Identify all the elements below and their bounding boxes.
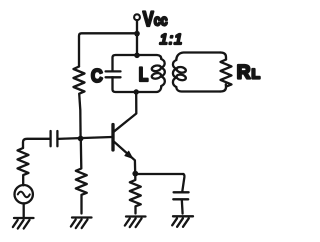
node at tank top — [134, 53, 140, 59]
svg-text:Vcc: Vcc — [143, 7, 168, 30]
bypass capacitor CE lead top — [182, 174, 184, 192]
wire secondary bottom rail — [176, 87, 220, 92]
svg-text:L: L — [139, 64, 149, 86]
ground (source) — [13, 218, 34, 229]
AC source — [15, 185, 33, 203]
wire top rail to R1 — [79, 33, 137, 66]
wire RL right side top — [221, 53, 227, 60]
wire emitter rail — [135, 173, 183, 175]
transistor Q1 base bar — [111, 125, 114, 151]
inductor L loop 2 — [151, 72, 161, 79]
transformer secondary loop 2 — [176, 74, 186, 81]
resistor RL — [221, 60, 232, 87]
transistor Q1 emitter lead — [114, 141, 136, 173]
node at tank bottom — [134, 89, 139, 94]
svg-text:R: R — [237, 63, 251, 84]
bypass capacitor CE lead bottom — [181, 200, 184, 214]
node at Vcc/R1 tap — [134, 31, 140, 37]
ground (R2) — [71, 218, 92, 229]
wire tank top rail — [113, 55, 162, 71]
wire RL right side bottom — [221, 84, 227, 91]
node at emitter — [132, 171, 138, 177]
wire AC source to ground — [23, 203, 25, 216]
resistor R2 — [76, 139, 87, 214]
wire secondary top rail — [176, 53, 220, 61]
bypass capacitor CE plates — [173, 192, 188, 199]
svg-text:C: C — [91, 65, 103, 86]
wire base — [58, 137, 112, 139]
resistor RE — [130, 174, 141, 214]
ground (CE) — [172, 216, 193, 227]
inductor L loop 1 — [151, 65, 161, 72]
wire tank bottom rail — [113, 77, 162, 92]
transistor Q1 collector lead — [114, 92, 137, 132]
node at base junction — [78, 136, 84, 142]
resistor R1 — [74, 67, 85, 139]
transformer secondary loop 1 — [176, 66, 186, 73]
AC source sine — [18, 192, 30, 198]
capacitor C plates — [106, 71, 121, 77]
inductor L winding humps — [161, 59, 165, 86]
ground (RE) — [125, 217, 146, 228]
resistor Rs (source resistance) — [18, 148, 29, 185]
svg-text:1:1: 1:1 — [160, 31, 184, 48]
Vcc terminal — [134, 14, 140, 20]
wire source to coupling cap — [23, 139, 50, 148]
svg-text:L: L — [252, 66, 261, 82]
coupling capacitor plates — [51, 131, 58, 146]
transistor Q1 emitter arrow — [125, 151, 133, 158]
transformer secondary winding humps — [173, 60, 176, 87]
wire Vcc stem down — [136, 20, 138, 55]
